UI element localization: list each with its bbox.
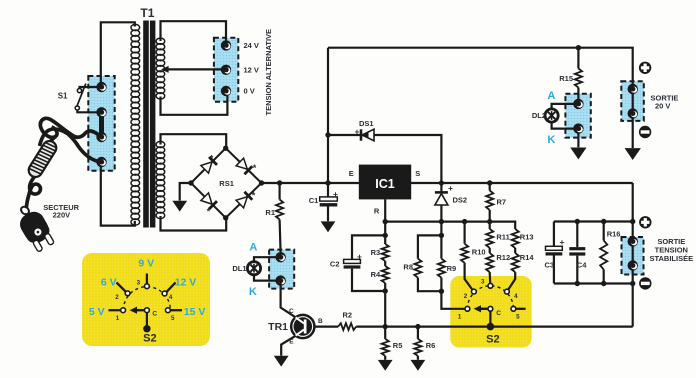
node R8 top bbox=[439, 233, 444, 238]
resistor R10 bbox=[461, 222, 473, 290]
svg-text:R11: R11 bbox=[496, 233, 509, 242]
transformer T1 primary winding bbox=[131, 24, 140, 225]
svg-text:+: + bbox=[357, 252, 362, 262]
svg-text:R2: R2 bbox=[343, 311, 353, 320]
svg-text:DS1: DS1 bbox=[359, 119, 374, 128]
label T1 bbox=[140, 6, 154, 20]
S2 right pole node bbox=[487, 323, 495, 331]
node caps top C4 bbox=[575, 219, 580, 224]
label pin S bbox=[415, 169, 420, 178]
svg-text:12 V: 12 V bbox=[175, 276, 197, 288]
screw S20 bottom bbox=[628, 108, 638, 118]
screw AC 12V bbox=[221, 65, 231, 75]
svg-text:6 V: 6 V bbox=[101, 276, 117, 288]
wire main rail E-side bbox=[262, 182, 360, 184]
svg-text:C3: C3 bbox=[545, 260, 555, 269]
label B TR1 bbox=[318, 318, 323, 325]
label DS2 bbox=[453, 195, 468, 204]
svg-text:2: 2 bbox=[115, 294, 119, 301]
S2 right pole drop bbox=[489, 311, 491, 326]
diode DS2 bbox=[435, 192, 448, 205]
S2 left stub 4 bbox=[167, 283, 176, 292]
label C TR1 bbox=[289, 308, 294, 315]
sleeve on mains cable bbox=[26, 138, 59, 179]
svg-text:*: * bbox=[207, 207, 211, 217]
svg-text:C: C bbox=[152, 310, 157, 317]
S2 left contact 4 bbox=[162, 291, 167, 296]
ground at SORTIE 20V bbox=[625, 148, 641, 160]
label A DL1 bbox=[249, 241, 257, 253]
resistor R7 bbox=[486, 183, 493, 222]
bridge diode bottom-right bbox=[236, 192, 252, 208]
svg-text:4: 4 bbox=[169, 294, 173, 301]
resistor R4 bbox=[382, 266, 389, 327]
label R3 bbox=[371, 248, 381, 257]
svg-text:A: A bbox=[547, 90, 555, 102]
capacitor C2 bbox=[344, 259, 386, 291]
wire C2 top branch bbox=[352, 235, 385, 259]
label TENSION ALTERNATIVE bbox=[264, 29, 273, 116]
label R6 bbox=[426, 341, 436, 350]
wire S1 to screw2 bbox=[77, 110, 101, 112]
label 12V AC bbox=[244, 65, 259, 74]
wire secondary-2 top to bridge bbox=[161, 134, 227, 147]
wire bottom rail left bbox=[314, 326, 338, 328]
node caps bottom C4 bbox=[575, 281, 580, 286]
svg-text:C: C bbox=[289, 308, 294, 315]
svg-text:R12: R12 bbox=[496, 253, 510, 262]
label DL1 bbox=[232, 264, 246, 273]
svg-text:R4: R4 bbox=[371, 270, 381, 279]
screw S20 top bbox=[628, 84, 638, 94]
plus label C1 bbox=[333, 189, 338, 199]
screw SST bottom bbox=[628, 260, 638, 270]
svg-text:S2: S2 bbox=[486, 333, 499, 345]
wire TR1 emitter bbox=[281, 336, 295, 355]
label S1 bbox=[58, 92, 68, 101]
svg-text:+: + bbox=[448, 183, 453, 193]
wire contact5 stub right bbox=[513, 308, 525, 310]
label R1 bbox=[265, 208, 275, 217]
wire DL1 cathode bbox=[254, 275, 281, 281]
svg-text:1: 1 bbox=[458, 313, 462, 320]
node DS2 bottom bbox=[439, 219, 444, 224]
svg-text:5: 5 bbox=[171, 315, 175, 322]
LED DL1 bbox=[247, 262, 260, 275]
wire R rail bbox=[385, 222, 515, 229]
node divider bottom bbox=[383, 288, 388, 293]
svg-text:R8: R8 bbox=[403, 263, 413, 272]
node R7 top bbox=[487, 180, 492, 185]
wire R9 chain upper bbox=[440, 222, 442, 259]
wire secondary-1 top to 24V bbox=[161, 21, 227, 42]
label C1 bbox=[309, 196, 319, 205]
resistor R12 bbox=[486, 248, 493, 284]
ground at C1 bbox=[321, 221, 336, 232]
svg-text:K: K bbox=[547, 134, 555, 146]
svg-text:+: + bbox=[560, 237, 565, 247]
label A DL2 bbox=[547, 90, 555, 102]
resistor R6 bbox=[414, 327, 421, 360]
wire DS1 branch bbox=[328, 135, 441, 183]
svg-text:3: 3 bbox=[481, 279, 485, 286]
plus terminal SORTIE 20V bbox=[639, 62, 651, 74]
svg-text:STABILISÉE: STABILISÉE bbox=[649, 254, 693, 263]
label 9V bbox=[138, 257, 154, 269]
wire primary bottom to terminal block bbox=[101, 162, 135, 226]
S2 left dashed arc bbox=[123, 287, 170, 311]
node R1 top bbox=[277, 180, 282, 185]
screw DL2 top bbox=[573, 99, 583, 109]
node R15 top bbox=[576, 45, 581, 50]
ground at TR1 bbox=[274, 356, 289, 367]
wire secondary-2 bottom to bridge bbox=[161, 216, 227, 231]
svg-text:5 V: 5 V bbox=[89, 306, 105, 318]
svg-text:9 V: 9 V bbox=[138, 257, 154, 269]
resistor R13 bbox=[512, 229, 519, 248]
label R5 bbox=[393, 341, 403, 350]
svg-text:+: + bbox=[333, 189, 338, 199]
label 15V bbox=[184, 306, 206, 318]
label pin R bbox=[374, 206, 380, 215]
S2 right center contact bbox=[488, 306, 493, 311]
wire main rail S-side bbox=[411, 182, 633, 184]
svg-text:R10: R10 bbox=[472, 247, 486, 256]
screw DL1 bottom bbox=[275, 275, 285, 285]
svg-text:IC1: IC1 bbox=[375, 177, 395, 191]
svg-text:S1: S1 bbox=[58, 92, 68, 101]
wire DS2 bbox=[440, 183, 442, 222]
wire R8 return bbox=[418, 278, 442, 292]
svg-text:K: K bbox=[249, 286, 257, 298]
plus label C2 bbox=[357, 252, 362, 262]
S2 left numbers bbox=[115, 279, 175, 322]
svg-text:R1: R1 bbox=[265, 208, 275, 217]
node R6 bbox=[415, 324, 420, 329]
svg-text:C4: C4 bbox=[577, 260, 587, 269]
label 12V bbox=[175, 276, 197, 288]
label R7 bbox=[497, 198, 507, 207]
screw mains 1 bbox=[96, 82, 106, 92]
plus label DS1 bbox=[355, 127, 360, 137]
svg-text:1: 1 bbox=[116, 315, 120, 322]
svg-text:C: C bbox=[496, 310, 501, 317]
label 5V bbox=[89, 306, 105, 318]
S2 right contact 1 bbox=[465, 306, 470, 311]
S2 rotary-switch detail highlight box (left) bbox=[82, 253, 210, 346]
terminal block DL1 bbox=[269, 250, 294, 289]
label E TR1 bbox=[289, 338, 294, 345]
S2 right contact 4 bbox=[505, 289, 510, 294]
S2 right contact 3 bbox=[488, 283, 493, 288]
node bus bottom bbox=[630, 281, 635, 286]
transformer T1 secondary winding upper bbox=[156, 38, 165, 99]
S2 left pole drop bbox=[146, 313, 148, 327]
label R12 bbox=[496, 253, 510, 262]
label 0V bbox=[244, 87, 255, 96]
bridge polarity asterisks bbox=[207, 154, 257, 217]
minus terminal SST bbox=[639, 277, 651, 289]
S2 right contact 1 wire bbox=[0, 0, 1, 1]
label RS1 bbox=[219, 179, 234, 188]
wire secondary-1 bottom to 0V bbox=[161, 93, 228, 115]
svg-text:4: 4 bbox=[514, 293, 518, 300]
capacitor C1 bbox=[320, 183, 338, 221]
wire E-bus vertical bbox=[327, 48, 329, 183]
svg-text:R6: R6 bbox=[426, 341, 436, 350]
switch S1 lever bbox=[77, 84, 86, 107]
S2 switch highlight box (right) bbox=[450, 276, 531, 348]
svg-text:2: 2 bbox=[464, 293, 468, 300]
svg-text:TENSION ALTERNATIVE: TENSION ALTERNATIVE bbox=[264, 29, 273, 116]
label R16 bbox=[607, 230, 621, 239]
screw mains 4 bbox=[96, 157, 106, 167]
resistor R1 bbox=[276, 183, 283, 253]
svg-text:RS1: RS1 bbox=[219, 179, 234, 188]
terminal block mains input bbox=[88, 76, 114, 171]
label 24V bbox=[244, 41, 259, 50]
svg-text:E: E bbox=[289, 338, 294, 345]
svg-text:15 V: 15 V bbox=[184, 306, 206, 318]
node R8 bottom bbox=[439, 289, 444, 294]
svg-text:E: E bbox=[349, 169, 354, 178]
svg-text:A: A bbox=[249, 241, 257, 253]
svg-text:R15: R15 bbox=[559, 74, 573, 83]
svg-text:R5: R5 bbox=[393, 341, 403, 350]
wire bridge left node to ground bbox=[180, 183, 191, 201]
screw DL1 top bbox=[275, 252, 285, 262]
S2 left stub 3 bbox=[146, 274, 148, 284]
label pin E bbox=[349, 169, 354, 178]
S2 left contact 2 bbox=[125, 291, 130, 296]
svg-text:3: 3 bbox=[137, 279, 141, 286]
svg-text:R16: R16 bbox=[607, 230, 621, 239]
svg-text:R3: R3 bbox=[371, 248, 381, 257]
terminal block SORTIE 20V bbox=[621, 81, 644, 121]
capacitor C4 bbox=[569, 222, 585, 284]
label K DL1 bbox=[249, 286, 257, 298]
wire S1 to screw1 bbox=[80, 87, 102, 88]
S2 left arrow bbox=[130, 307, 145, 314]
S2 left stub 2 bbox=[117, 283, 126, 292]
capacitor C3 bbox=[546, 222, 563, 284]
LED DL2 bbox=[545, 109, 558, 122]
wire IC1 R pin bbox=[384, 199, 386, 235]
label S2 left bbox=[143, 332, 156, 344]
label TR1 bbox=[268, 321, 288, 333]
label DS1 bbox=[359, 119, 374, 128]
switch S1 contacts bbox=[75, 89, 81, 111]
resistor R16 bbox=[600, 222, 607, 284]
S2 left contact 3 bbox=[145, 284, 150, 289]
bridge node dots bbox=[188, 146, 264, 221]
node R11 top bbox=[487, 219, 492, 224]
wire caps top rail bbox=[554, 220, 633, 222]
S2 left stub 5 bbox=[170, 309, 182, 311]
label R15 bbox=[559, 74, 573, 83]
diode DS1 bbox=[361, 129, 374, 141]
node divider top bbox=[383, 233, 388, 238]
svg-text:DL2: DL2 bbox=[532, 111, 546, 120]
resistor R8 bbox=[414, 259, 421, 278]
wire primary top to terminal block bbox=[101, 22, 135, 84]
svg-text:R9: R9 bbox=[447, 264, 457, 273]
ground at R6 bbox=[411, 360, 426, 371]
svg-text:C2: C2 bbox=[330, 260, 340, 269]
plus label DS2 bbox=[448, 183, 453, 193]
plus terminal SST bbox=[639, 216, 651, 228]
S2 right contact 2 bbox=[472, 289, 477, 294]
ground at R5 bbox=[378, 360, 393, 371]
label R10 bbox=[472, 247, 486, 256]
svg-text:TR1: TR1 bbox=[268, 321, 288, 333]
transformer T1 secondary winding lower bbox=[156, 141, 165, 218]
screw mains 2 bbox=[96, 107, 106, 117]
wire right bus bbox=[632, 183, 634, 327]
label R11 bbox=[496, 233, 509, 242]
wire TR1 collector bbox=[281, 281, 295, 317]
svg-text:DS2: DS2 bbox=[453, 195, 468, 204]
S2 left stub 1 bbox=[109, 309, 121, 311]
svg-text:220V: 220V bbox=[53, 210, 71, 219]
jumper link screws 2-3 bbox=[99, 117, 104, 133]
terminal block AC outputs 24/12/0V bbox=[214, 38, 238, 102]
ground at DL2 bbox=[570, 148, 586, 160]
S2 right arrow bbox=[474, 305, 488, 312]
svg-text:*: * bbox=[252, 191, 256, 201]
label 6V bbox=[101, 276, 117, 288]
screw mains 3 bbox=[96, 132, 106, 142]
resistor R14 bbox=[508, 248, 519, 290]
label S2 right bbox=[486, 333, 499, 345]
svg-text:R14: R14 bbox=[520, 253, 535, 262]
transformer T1 core bbox=[143, 21, 155, 228]
bridge diode bottom-left bbox=[201, 193, 217, 209]
wire R8 branch bbox=[418, 235, 442, 258]
node caps bottom R16 bbox=[601, 281, 606, 286]
wire bottom rail right bbox=[356, 326, 633, 328]
svg-text:S: S bbox=[415, 169, 420, 178]
wire DL1 anode bbox=[254, 257, 281, 261]
terminal block DL2 bbox=[565, 94, 590, 138]
svg-text:+: + bbox=[355, 127, 360, 137]
wire DL2 ground stem bbox=[577, 129, 579, 148]
S2 right contact 5 bbox=[511, 306, 516, 311]
label R14 bbox=[520, 253, 535, 262]
resistor R2 bbox=[338, 323, 356, 330]
label R9 bbox=[447, 264, 457, 273]
label DL2 bbox=[532, 111, 546, 120]
label SORTIE TENSION STABILISEE bbox=[649, 237, 693, 263]
svg-text:12 V: 12 V bbox=[244, 65, 259, 74]
svg-text:24 V: 24 V bbox=[244, 41, 259, 50]
screw AC 24V bbox=[221, 40, 231, 50]
svg-text:20 V: 20 V bbox=[655, 102, 670, 111]
resistor R15 bbox=[575, 48, 582, 100]
svg-text:R7: R7 bbox=[497, 198, 507, 207]
node R4/R5 bbox=[383, 324, 388, 329]
wire secondary-1 tap to 12V bbox=[161, 66, 226, 73]
transistor TR1 bbox=[291, 315, 314, 338]
svg-text:R13: R13 bbox=[520, 233, 534, 242]
plus label C3 bbox=[560, 237, 565, 247]
svg-text:S2: S2 bbox=[143, 332, 156, 344]
svg-text:B: B bbox=[318, 318, 323, 325]
node IC1 S bbox=[439, 180, 444, 185]
label R4 bbox=[371, 270, 381, 279]
node R-pin rail bbox=[383, 219, 388, 224]
svg-text:R: R bbox=[374, 206, 380, 215]
node R10 top bbox=[462, 219, 467, 224]
label R8 bbox=[403, 263, 413, 272]
label C2 bbox=[330, 260, 340, 269]
S2 left pole node bbox=[143, 325, 150, 332]
svg-text:0 V: 0 V bbox=[244, 87, 255, 96]
node caps top R16 bbox=[601, 219, 606, 224]
resistor R3 bbox=[382, 235, 389, 266]
label C4 bbox=[577, 260, 587, 269]
label C3 bbox=[545, 260, 555, 269]
wire DL2 anode bbox=[552, 104, 579, 109]
mains cable from terminal block to plug bbox=[26, 118, 102, 212]
label R13 bbox=[520, 233, 534, 242]
label SORTIE 20V bbox=[651, 93, 679, 110]
screw AC 0V bbox=[221, 86, 231, 96]
svg-text:*: * bbox=[253, 163, 257, 173]
label K DL2 bbox=[547, 134, 555, 146]
svg-text:5: 5 bbox=[516, 313, 520, 320]
label R2 bbox=[343, 311, 353, 320]
S2 left contact 1 bbox=[121, 308, 126, 313]
resistor R5 bbox=[382, 327, 389, 360]
resistor R11 bbox=[486, 222, 493, 248]
svg-text:*: * bbox=[210, 154, 214, 164]
S2 left contact 5 bbox=[166, 308, 171, 313]
wire R9 to S2 contact1 bbox=[441, 278, 464, 309]
wire top rail bbox=[328, 48, 633, 148]
S2 left center contact bbox=[145, 308, 150, 313]
mains plug SECTEUR 220V bbox=[16, 205, 57, 254]
ground at bridge bbox=[172, 201, 187, 212]
S2 right dashed arc bbox=[467, 286, 513, 309]
bridge diode top-right bbox=[236, 158, 252, 174]
node DS1 left bbox=[325, 132, 330, 137]
svg-text:C1: C1 bbox=[309, 196, 319, 205]
terminal block SORTIE STABILISEE bbox=[622, 237, 644, 275]
svg-text:DL1: DL1 bbox=[232, 264, 246, 273]
bridge diode top-left bbox=[201, 157, 217, 173]
screw SST top bbox=[628, 236, 638, 246]
S2 right numbers bbox=[458, 279, 520, 321]
wire DL2 cathode bbox=[552, 122, 579, 128]
bridge RS1 edges bbox=[191, 148, 262, 218]
label SECTEUR 220V bbox=[43, 203, 79, 219]
node C1/E-bus bbox=[325, 180, 330, 185]
wire caps bottom rail bbox=[554, 282, 633, 284]
op-amp regulator IC1 bbox=[359, 165, 411, 200]
screw DL2 bottom bbox=[573, 123, 583, 133]
resistor R9 bbox=[438, 259, 445, 278]
node bus top bbox=[630, 219, 635, 224]
minus terminal SORTIE 20V bbox=[639, 126, 651, 138]
svg-text:T1: T1 bbox=[140, 6, 154, 20]
